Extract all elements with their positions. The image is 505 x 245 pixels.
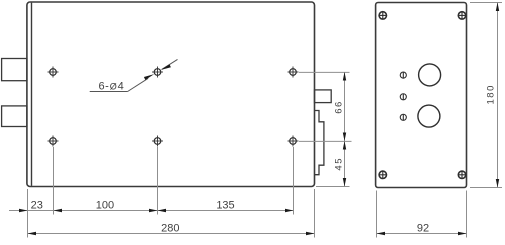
hole H3 top-right (288, 67, 299, 78)
callout arrowhead toward hole lower-left (144, 74, 154, 80)
extension line side top (470, 2, 502, 4)
callout arrowhead toward hole upper-right (161, 64, 171, 70)
dimension 92 arrow right (458, 232, 467, 235)
hole H1 top-left (48, 67, 59, 78)
svg-text:23: 23 (31, 199, 43, 211)
hole H2 top-middle (152, 67, 163, 78)
left connector tab lower (2, 106, 27, 127)
big connector circle lower (418, 105, 440, 127)
extension line front left edge (27, 189, 29, 238)
right side stepped profile (315, 111, 324, 175)
dimension 66 arrow up (343, 72, 346, 81)
dimension 45 arrow down (343, 178, 346, 187)
extension line side right edge (466, 191, 468, 238)
dimension 66 arrow down (343, 133, 346, 142)
extension line front right edge (314, 189, 316, 238)
extension line hole col1 (53, 147, 55, 215)
extension line hole row1 right (299, 71, 350, 73)
trimmer T2 (400, 94, 406, 100)
svg-text:100: 100 (96, 199, 114, 211)
dimension 100 line (54, 210, 158, 212)
front panel inner edge line (31, 3, 33, 186)
callout 6-dia-4 leader (90, 59, 178, 91)
dimension 100 arrow right (149, 209, 158, 212)
left connector tab upper (2, 59, 27, 81)
extension line hole row2 right (299, 140, 352, 142)
dimension 180 arrow up (496, 3, 499, 12)
dimension 135 arrow right (285, 209, 294, 212)
svg-text:92: 92 (417, 222, 429, 234)
dimension 45 line (344, 141, 346, 187)
svg-text:135: 135 (216, 199, 234, 211)
dimension 135 arrow left (158, 209, 167, 212)
screw S3 bottom-left (379, 171, 386, 178)
dimension 45 arrow up (343, 141, 346, 150)
screw S2 top-right (458, 12, 465, 19)
hole H4 bottom-left (48, 136, 59, 147)
dimension 280 arrow right (306, 232, 315, 235)
svg-text:6-Ø4: 6-Ø4 (99, 80, 124, 92)
svg-text:66: 66 (334, 100, 345, 114)
extension line side bottom (470, 187, 502, 189)
dimension 180 arrow down (496, 179, 499, 188)
trimmer T1 (400, 72, 406, 78)
enclosure front view outline (27, 2, 315, 187)
svg-text:45: 45 (333, 157, 344, 171)
extension line side left edge (376, 191, 378, 238)
hole H6 bottom-right (288, 136, 299, 147)
hole H5 bottom-middle (152, 136, 163, 147)
dimension 23 line with outside arrow (9, 210, 54, 212)
screw S1 top-left (379, 12, 386, 19)
dimension 280 line (28, 233, 315, 235)
svg-text:180: 180 (486, 84, 497, 104)
dimension 135 line (158, 210, 294, 212)
screw S4 bottom-right (458, 171, 465, 178)
dimension 100 arrow left (54, 209, 63, 212)
dimension 280 arrow left (28, 232, 37, 235)
dimension 92 line (377, 233, 467, 235)
dimension 92 arrow left (377, 232, 386, 235)
dimension 66 line (344, 72, 346, 141)
extension line hole col2 (157, 147, 159, 215)
extension line hole col3 (293, 147, 295, 215)
dimension 180 line (497, 3, 499, 188)
dimension 23 arrow right (19, 209, 28, 212)
enclosure side view outline (376, 3, 467, 188)
svg-text:280: 280 (161, 223, 179, 235)
big connector circle upper (419, 64, 441, 86)
extension line bottom edge right (316, 186, 350, 188)
right side small tab (315, 90, 332, 103)
trimmer T3 (400, 114, 406, 120)
